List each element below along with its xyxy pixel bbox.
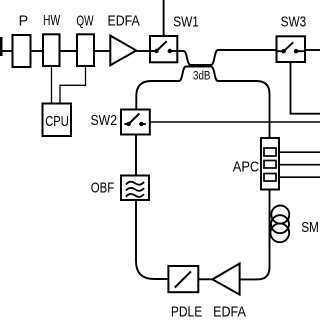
polarization controller APC [261,138,279,190]
optical bandpass filter OBF [121,176,149,201]
svg-text:3dB: 3dB [193,71,211,83]
fiber coil SMF circle 3 [270,223,289,242]
APC control line 3 [279,176,320,178]
wire SW2 electrical line to right edge [150,121,320,123]
coupler 3dB lower fiber waist and right branch to APC [191,67,270,139]
fiber coil SMF circle 1 [271,206,289,224]
svg-text:EDFA: EDFA [108,12,141,29]
wire SW2 to OBF [135,135,137,176]
svg-text:SW3: SW3 [281,13,307,30]
coupler 3dB upper fiber [177,50,276,65]
switch SW2 [121,110,150,135]
svg-text:CPU: CPU [45,113,69,130]
laser source (clipped at left edge) [0,37,3,56]
wire PDLE to EDFA2 [198,278,212,280]
fiber coil SMF circle 2 [271,215,289,233]
wire coil vertical through SMF [269,190,271,248]
wire EDFA to SW1 [136,50,150,52]
wire EDFA2 right and up to SMF coil [240,246,270,279]
half-wave plate HW [43,34,60,66]
wire QW to EDFA [94,50,110,52]
svg-text:SW2: SW2 [91,113,118,129]
coupler 3dB lower fiber left branch to SW2 [136,67,190,110]
svg-text:HW: HW [43,13,61,29]
wire source to P [3,50,13,52]
wire SW3 bottom down and right to edge [291,62,320,114]
control line HW to CPU [51,66,53,104]
quarter-wave plate QW [77,34,94,66]
svg-text:OBF: OBF [91,181,115,197]
polarizer P [13,35,31,67]
wire OBF down and around to PDLE [136,200,168,279]
svg-text:QW: QW [76,13,94,29]
switch SW1 [150,36,177,62]
PDL emulator PDLE [168,266,198,292]
APC control line 2 [279,164,320,166]
svg-text:APC: APC [233,159,259,176]
wire HW to QW [60,50,78,52]
svg-text:EDFA: EDFA [213,304,247,320]
control line QW to CPU [60,66,86,104]
wire SW1 up to top edge [163,0,165,36]
computer CPU box [43,104,72,137]
svg-text:PDLE: PDLE [171,304,202,320]
svg-text:SM: SM [301,219,319,236]
wire SW3 output to right edge [305,49,320,51]
amplifier EDFA (input) [110,36,136,66]
APC control line 1 [279,151,320,153]
svg-text:SW1: SW1 [173,13,199,30]
switch SW3 [277,36,306,62]
amplifier EDFA (loop) [212,264,239,295]
svg-text:P: P [19,14,29,30]
wire P to HW [31,50,44,52]
